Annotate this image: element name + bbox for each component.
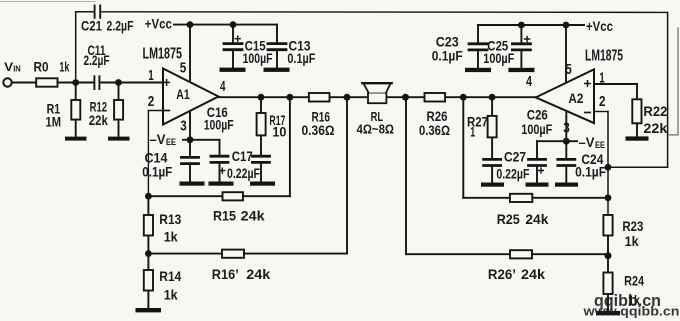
- svg-text:0.36Ω: 0.36Ω: [302, 122, 335, 138]
- svg-text:0.1µF: 0.1µF: [575, 163, 606, 179]
- svg-text:22k: 22k: [89, 112, 108, 128]
- ground of R12: [108, 137, 130, 141]
- ground of C24: [555, 183, 578, 187]
- node speaker right: [402, 94, 409, 101]
- svg-text:LM1875: LM1875: [585, 48, 623, 65]
- wire pin 3 of A2 to -VEE node: [565, 111, 567, 141]
- node B junction C11/R12: [115, 79, 122, 86]
- capacitor C26: [521, 107, 566, 183]
- svg-text:EE: EE: [595, 140, 605, 150]
- svg-text:24k: 24k: [525, 211, 548, 227]
- node -VEE right: [563, 138, 570, 145]
- resistor R16: [302, 93, 335, 138]
- resistor R17: [257, 97, 287, 156]
- resistor R0: [34, 59, 70, 87]
- svg-text:2: 2: [599, 93, 606, 110]
- svg-text:100µF: 100µF: [483, 50, 514, 66]
- wire right edge drop of C21 net: [667, 12, 669, 167]
- op-amp A2: [536, 69, 594, 123]
- node A input junction: [72, 79, 79, 86]
- svg-text:24k: 24k: [241, 207, 265, 223]
- ground of C25: [508, 68, 534, 72]
- svg-text:1M: 1M: [46, 114, 62, 130]
- svg-text:4: 4: [526, 73, 532, 90]
- svg-text:V: V: [4, 60, 13, 74]
- wire pin 3 of A1 to -VEE node: [189, 111, 191, 140]
- capacitor C21: [81, 6, 134, 34]
- svg-text:C21: C21: [81, 18, 102, 34]
- wire feedback riser R15: [289, 97, 291, 196]
- svg-text:R13: R13: [159, 211, 181, 227]
- resistor R15: [148, 192, 290, 223]
- node feedback on output rail: [287, 94, 294, 101]
- resistor R1: [46, 83, 81, 137]
- input terminal VIN: [3, 60, 20, 87]
- svg-text:1k: 1k: [164, 229, 178, 245]
- ground of R24: [596, 311, 620, 315]
- svg-text:R25: R25: [497, 211, 520, 227]
- ground of C17: [250, 182, 275, 186]
- svg-text:–V: –V: [579, 134, 596, 150]
- wire R25 riser: [462, 97, 464, 198]
- svg-text:LM1875: LM1875: [143, 46, 183, 63]
- edge artifact top-left: [0, 1, 95, 3]
- svg-text:0.36Ω: 0.36Ω: [419, 122, 450, 138]
- svg-text:A1: A1: [176, 86, 190, 102]
- svg-text:R15: R15: [213, 207, 236, 223]
- wire pin 5 of A1: [189, 25, 191, 83]
- node C21 net joins pin2 column: [605, 164, 612, 171]
- ground of C16: [209, 182, 234, 186]
- wire R26' riser to speaker right node: [405, 97, 407, 254]
- svg-text:C17: C17: [232, 148, 253, 164]
- svg-text:1: 1: [148, 67, 154, 84]
- svg-text:R16’: R16’: [212, 266, 239, 282]
- ground of C23: [465, 68, 491, 72]
- node -VEE left: [187, 136, 194, 143]
- capacitor C24: [558, 141, 607, 182]
- svg-text:0.22µF: 0.22µF: [496, 166, 529, 182]
- capacitor C27: [484, 149, 530, 183]
- resistor R26: [419, 93, 450, 138]
- svg-text:2: 2: [148, 93, 155, 110]
- svg-text:R26’: R26’: [488, 266, 516, 282]
- svg-text:A2: A2: [568, 90, 583, 106]
- wire VIN to R0: [12, 82, 36, 84]
- svg-text:24k: 24k: [246, 266, 270, 282]
- node R27 on rail: [489, 94, 496, 101]
- resistor R25: [463, 194, 608, 227]
- node R13/R14 junction: [145, 250, 152, 257]
- capacitor C17: [227, 148, 270, 182]
- wire R16' riser to speaker left node: [346, 97, 348, 253]
- svg-text:1k: 1k: [625, 233, 639, 249]
- ground of R1: [65, 137, 87, 141]
- svg-text:0.1µF: 0.1µF: [142, 163, 172, 179]
- wire node A up to C21: [75, 12, 77, 83]
- capacitor C11: [84, 42, 110, 89]
- svg-text:4: 4: [220, 78, 226, 95]
- speaker RL: [347, 83, 406, 136]
- svg-text:5: 5: [565, 61, 572, 78]
- resistor R14: [144, 254, 182, 308]
- svg-text:+Vcc: +Vcc: [586, 18, 613, 34]
- -VEE label right: [566, 134, 605, 150]
- resistor R12: [89, 83, 123, 137]
- ground of C13: [264, 68, 290, 72]
- ground of R22: [626, 136, 649, 140]
- node speaker left: [344, 94, 351, 101]
- svg-text:0.22µF: 0.22µF: [227, 165, 260, 181]
- svg-text:C27: C27: [504, 149, 526, 165]
- wire C21 top line to right edge: [100, 11, 667, 14]
- resistor R23: [603, 215, 643, 256]
- ground of C27: [481, 183, 504, 187]
- resistor R13: [144, 196, 182, 253]
- wire pin 2 of A1 down: [148, 111, 163, 197]
- node pin5 A2 on +Vcc: [563, 22, 570, 29]
- node pin5 A1 on +Vcc: [187, 21, 194, 28]
- ground of R14: [136, 308, 162, 312]
- svg-text:5: 5: [180, 60, 187, 77]
- svg-text:1: 1: [470, 123, 475, 139]
- svg-text:100µF: 100µF: [204, 117, 234, 133]
- ground of C15: [220, 68, 246, 72]
- capacitor C14: [142, 140, 198, 182]
- svg-text:24k: 24k: [521, 266, 545, 282]
- svg-text:2.2µF: 2.2µF: [107, 18, 134, 34]
- resistor R24: [603, 256, 644, 311]
- +Vcc rail left: [145, 15, 277, 31]
- svg-text:10: 10: [272, 123, 286, 139]
- svg-text:R23: R23: [622, 218, 643, 234]
- resistor R22: [632, 99, 667, 136]
- svg-text:1k: 1k: [59, 59, 69, 75]
- svg-text:3: 3: [180, 118, 187, 135]
- svg-text:100µF: 100µF: [521, 121, 552, 137]
- wire pin 1 of A2 to R22: [594, 84, 637, 99]
- node pin2 column junction R13: [145, 193, 152, 200]
- watermark qqibb.cn: [582, 292, 679, 319]
- svg-text:22k: 22k: [643, 120, 667, 136]
- svg-text:4Ω~8Ω: 4Ω~8Ω: [357, 123, 395, 137]
- resistor R26': [406, 250, 608, 282]
- svg-text:R22: R22: [643, 103, 667, 119]
- edge artifact right: [669, 28, 678, 135]
- ground of C14: [180, 182, 205, 186]
- -VEE label left: [150, 131, 191, 147]
- op-amp A1: [163, 69, 219, 125]
- capacitor C25: [483, 25, 530, 68]
- svg-text:IN: IN: [13, 64, 21, 74]
- wire pin 2 of A2 down column: [594, 112, 608, 216]
- output rail of A1: [219, 96, 348, 98]
- wire C11 to pin1 of A1: [99, 82, 163, 84]
- capacitor C16: [190, 104, 234, 181]
- resistor R27: [467, 97, 497, 159]
- svg-text:EE: EE: [166, 137, 176, 147]
- svg-text:–V: –V: [150, 131, 167, 147]
- capacitor C23: [432, 25, 487, 68]
- node R17 on output rail: [258, 94, 265, 101]
- svg-text:www.qqibb.cn: www.qqibb.cn: [582, 305, 679, 319]
- resistor R16': [148, 250, 347, 283]
- node C25 on +Vcc: [518, 22, 525, 29]
- svg-text:100µF: 100µF: [243, 50, 273, 66]
- capacitor C13: [268, 25, 316, 68]
- svg-text:R14: R14: [159, 268, 181, 284]
- svg-text:R0: R0: [34, 59, 49, 75]
- node C15 on +Vcc: [230, 21, 237, 28]
- node R23/R24 junction: [605, 252, 612, 259]
- output rail of A2: [406, 96, 536, 98]
- capacitor C15: [224, 25, 273, 68]
- node R25 joins pin2 column: [605, 194, 612, 201]
- +Vcc rail right: [478, 18, 613, 34]
- svg-text:0.1µF: 0.1µF: [432, 47, 463, 63]
- svg-text:1k: 1k: [164, 287, 178, 303]
- wire R0 to C11: [58, 82, 95, 84]
- wire pin 5 of A2: [565, 25, 567, 83]
- node R25 riser on rail: [460, 94, 467, 101]
- svg-text:0.1µF: 0.1µF: [287, 50, 315, 66]
- svg-text:R24: R24: [624, 273, 644, 289]
- ground of C26: [526, 183, 549, 187]
- svg-text:+Vcc: +Vcc: [145, 15, 172, 31]
- svg-text:2.2µF: 2.2µF: [84, 52, 110, 68]
